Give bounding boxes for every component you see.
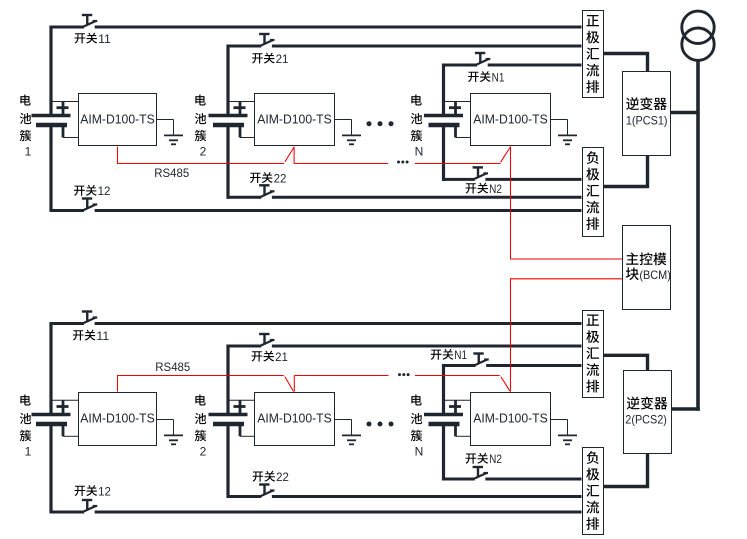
- svg-text:(BCM): (BCM): [639, 269, 671, 282]
- svg-text:AIM-D100-TS: AIM-D100-TS: [257, 412, 332, 426]
- ellipsis dots between cluster 2 and N (top): [367, 121, 394, 126]
- RS485 vertical drop U5 (bottom): [293, 376, 295, 392]
- svg-text:21: 21: [276, 52, 289, 66]
- wire: switch-21 row (y=346) bottom: [227, 345, 262, 348]
- ground symbol G5 (bottom): [335, 419, 352, 421]
- breaker switch 开关12 (top): [82, 197, 92, 199]
- BMS module U2 AIM-D100-TS (top cluster 2): [255, 94, 335, 146]
- wire: switch-N2 row (y=179) to negative busbar: [442, 178, 475, 181]
- wire: cluster-N DC bus (vertical) bottom system: [442, 364, 445, 415]
- RS485 red horizontal segment 1 (top): [117, 163, 284, 165]
- wire: cluster-1 DC bus (vertical, x=51) top system: [49, 26, 52, 116]
- wire: cluster-2 DC bus (vertical) bottom system: [226, 345, 229, 415]
- battery BN (bottom): [444, 399, 471, 401]
- label 开关12 (top): [74, 186, 85, 196]
- wire: switch-21 row (y=46) to positive busbar: [227, 45, 262, 48]
- breaker switch 开关21 (bottom): [259, 333, 269, 335]
- ground symbol G6 (bottom): [551, 419, 568, 421]
- ground symbol G2 (top): [335, 119, 352, 121]
- ellipsis dots between cluster 2 and N (bottom): [367, 422, 394, 427]
- wire: inverter-2 AC output to transformer drop: [672, 407, 700, 410]
- svg-text:1: 1: [25, 144, 32, 158]
- svg-text:2: 2: [200, 144, 207, 158]
- wire: inverter-2 DC- to negative busbar: [604, 454, 648, 487]
- inverter U3 逆变器1(PCS1): [623, 72, 671, 156]
- wire: switch-11 row (y=27) to positive busbar: [50, 26, 85, 29]
- breaker switch 开关11 (bottom): [82, 310, 92, 312]
- label 开关N1 (top): [468, 72, 479, 82]
- svg-text:N1: N1: [492, 70, 505, 84]
- label 电池簇2 (top): [195, 94, 205, 105]
- label 开关21 (bottom): [252, 351, 263, 361]
- RS485 tap diagonal into UN (top): [501, 147, 511, 163]
- battery B1 (bottom): [51, 399, 78, 401]
- label 开关N1 (bottom): [431, 350, 442, 360]
- svg-text:N1: N1: [454, 348, 467, 362]
- svg-text:11: 11: [98, 32, 111, 46]
- RS485 tap diagonal into U2 (top): [285, 147, 294, 162]
- svg-text:1: 1: [25, 444, 32, 458]
- svg-text:22: 22: [276, 470, 289, 484]
- svg-text:AIM-D100-TS: AIM-D100-TS: [80, 113, 155, 127]
- svg-text:AIM-D100-TS: AIM-D100-TS: [80, 412, 155, 426]
- master control module 主控模块(BCM): [623, 226, 671, 310]
- label 开关N2 (top): [466, 183, 477, 193]
- svg-text:22: 22: [274, 171, 287, 185]
- label 开关22 (top): [250, 173, 261, 183]
- label 开关12 (bottom): [75, 486, 86, 496]
- battery B2 (bottom): [228, 399, 254, 401]
- negative busbar box 负极汇流排 (bottom): [583, 448, 604, 535]
- svg-text:2(PCS2): 2(PCS2): [625, 414, 667, 427]
- RS485 bus (red) top system: U1 drop: [117, 147, 119, 164]
- battery B1 (top) with polarity plates and + mark: [51, 101, 78, 103]
- label 电池簇1 (top): [20, 94, 30, 105]
- wire: inverter-1 DC- to negative busbar: [604, 155, 648, 187]
- wire: switch-22 row (y=197.3) to negative busbar: [227, 196, 262, 199]
- RS485 ellipsis dots (top): [397, 161, 409, 164]
- wire: switch-N1 row (y=65) to positive busbar: [442, 64, 477, 67]
- RS485 red horizontal segment 3 (top): [415, 163, 501, 165]
- wire: cluster-2 DC bus (vertical, x=228) top system: [226, 45, 229, 116]
- svg-text:N: N: [415, 144, 424, 158]
- svg-text:2: 2: [200, 444, 207, 458]
- RS485 red horizontal segment 1 (bottom): [117, 375, 284, 377]
- RS485 red horizontal segment 3 (bottom): [415, 375, 500, 377]
- BMS module U1 AIM-D100-TS (top cluster 1): [79, 94, 157, 146]
- label 电池簇1 (bottom): [20, 394, 30, 405]
- label 开关21 (top): [252, 53, 263, 63]
- battery BN (top): [444, 101, 471, 103]
- svg-text:AIM-D100-TS: AIM-D100-TS: [473, 113, 548, 127]
- positive busbar box 正极汇流排 (top): [583, 11, 604, 98]
- wire: switch-11 row (y=324) to positive busbar (bottom): [50, 322, 85, 325]
- breaker switch 开关N1 (bottom): [473, 352, 483, 354]
- ground symbol GN (top): [551, 119, 568, 121]
- svg-text:12: 12: [98, 184, 111, 198]
- breaker switch 开关N2 (top): [473, 166, 483, 168]
- BMS module U6 AIM-D100-TS (bottom cluster N): [471, 393, 551, 446]
- breaker switch 开关12 (bottom): [82, 499, 92, 501]
- RS485 tap diagonal into U6 (bottom): [501, 377, 510, 392]
- RS485 red horizontal segment 2 (bottom): [294, 375, 388, 377]
- wire: positive busbar to inverter-1 DC+ input: [604, 54, 648, 73]
- RS485 tap diagonal into U5 (bottom): [285, 377, 294, 392]
- svg-text:21: 21: [275, 350, 288, 364]
- RS485 red link BCM to bottom system riser: [511, 279, 623, 392]
- label 电池簇N (bottom): [411, 394, 421, 405]
- svg-text:11: 11: [96, 329, 109, 343]
- battery B2 (top): [228, 101, 254, 103]
- svg-text:12: 12: [98, 484, 111, 498]
- wire: switch-22 row (y=496.5) bottom: [227, 495, 262, 498]
- svg-text:N2: N2: [489, 182, 502, 196]
- RS485 riser from UN to BCM (red): [511, 146, 623, 259]
- breaker switch 开关22 (bottom): [259, 483, 269, 485]
- label 开关11 (top): [75, 33, 86, 43]
- breaker switch 开关N2 (bottom): [473, 466, 483, 468]
- svg-text:N: N: [415, 444, 424, 458]
- wire: switch-N1 row (y=365.5) bottom: [442, 364, 476, 367]
- label 开关11 (bottom): [73, 330, 84, 340]
- RS485 bus (red) bottom system: U4 drop: [117, 376, 119, 392]
- wire: positive busbar to inverter-2 DC+ input: [604, 355, 648, 371]
- BMS module U5 AIM-D100-TS (bottom cluster 2): [255, 393, 335, 446]
- negative busbar box 负极汇流排 (top): [583, 148, 604, 237]
- svg-text:N2: N2: [489, 452, 502, 466]
- wire: switch-N2 row (y=478) bottom: [442, 478, 475, 481]
- wire: bottom row with switch-12 (y=512, bottom system): [50, 511, 85, 514]
- RS485 vertical drop U2 (top): [293, 147, 295, 164]
- wire: inverter-1 AC output to transformer drop: [671, 111, 698, 114]
- RS485 red horizontal segment 2 (top): [294, 163, 388, 165]
- label 电池簇N (top): [411, 94, 421, 105]
- label 电池簇2 (bottom): [195, 394, 205, 405]
- breaker switch 开关11 (top): [82, 14, 92, 16]
- ground symbol G4 (bottom): [157, 419, 174, 421]
- wire: cluster-1 DC bus (vertical) bottom system: [49, 322, 52, 415]
- svg-text:AIM-D100-TS: AIM-D100-TS: [257, 113, 332, 127]
- transformer T1 (two overlapping circles): [682, 11, 714, 43]
- wire: cluster-N DC bus (vertical, x=443.5) top system: [442, 64, 445, 116]
- ground symbol G1 (top): [157, 119, 174, 121]
- wire: bottom row with switch-12 (y=210.5) to negative busbar: [50, 209, 85, 212]
- svg-text:1(PCS1): 1(PCS1): [626, 115, 668, 128]
- label 开关N2 (bottom): [466, 453, 477, 463]
- svg-text:RS485: RS485: [154, 166, 189, 180]
- breaker switch 开关N1 (top): [475, 52, 485, 54]
- BMS module UN AIM-D100-TS (top cluster N): [471, 94, 551, 146]
- wire: grid drop from transformer (x=698): [696, 60, 700, 410]
- breaker switch 开关21 (top): [259, 33, 269, 35]
- positive busbar box 正极汇流排 (bottom): [583, 311, 604, 398]
- BMS module U4 AIM-D100-TS (bottom cluster 1): [79, 393, 157, 446]
- breaker switch 开关22 (top): [259, 184, 269, 186]
- label 开关22 (bottom): [253, 471, 264, 481]
- svg-text:AIM-D100-TS: AIM-D100-TS: [473, 412, 548, 426]
- inverter U7 逆变器2(PCS2): [624, 371, 672, 454]
- svg-text:RS485: RS485: [155, 360, 190, 374]
- RS485 ellipsis dots (bottom): [398, 373, 410, 376]
